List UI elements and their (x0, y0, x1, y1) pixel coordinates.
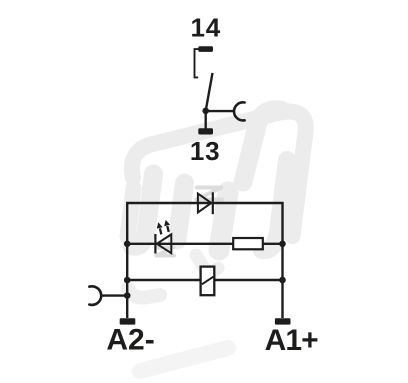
svg-text:14: 14 (191, 12, 222, 42)
relay coil K1 (201, 267, 215, 296)
node: bottom row right (279, 277, 286, 284)
plug contact symbol (left, opens left) (89, 286, 101, 305)
wire: coil circuit frame (left vertical, top wire, right vertical) (127, 203, 282, 318)
node: middle row right (279, 241, 286, 248)
relay coil diagonal (202, 277, 214, 285)
wire: bottom row (relay coil) (127, 279, 282, 281)
LED emission arrow 2 (164, 220, 170, 232)
diode V1 (top, anode left) (198, 194, 211, 213)
svg-text:13: 13 (190, 136, 221, 166)
switch blade (NO contact) (206, 73, 213, 111)
wire: left plug to A2 line (101, 294, 127, 296)
wire: middle row (LED + resistor) (127, 243, 282, 245)
fixed contact bracket (195, 49, 199, 77)
svg-text:A2-: A2- (106, 324, 154, 357)
wire: junction to plug contact (206, 110, 234, 112)
background watermark logo (128, 110, 306, 371)
terminal A2 contact bar (120, 318, 136, 324)
node: middle row left (124, 241, 131, 248)
node: blade junction (202, 108, 209, 115)
terminal A1 contact bar (275, 318, 291, 324)
plug contact symbol (right, opens right) (234, 102, 245, 120)
resistor R1 (233, 238, 263, 249)
LED triangle (points left) (157, 234, 172, 253)
terminal 13 contact bar (198, 128, 213, 134)
LED cathode bar (154, 234, 156, 254)
terminal 14 contact bar (198, 46, 213, 52)
svg-text:A1+: A1+ (265, 324, 319, 357)
LED emission arrow 1 (157, 222, 163, 234)
diode V1 cathode bar (212, 192, 214, 214)
wire: junction down to terminal 13 (204, 111, 206, 129)
node: bottom row left (124, 277, 131, 284)
node: A2 plug junction (124, 292, 131, 299)
